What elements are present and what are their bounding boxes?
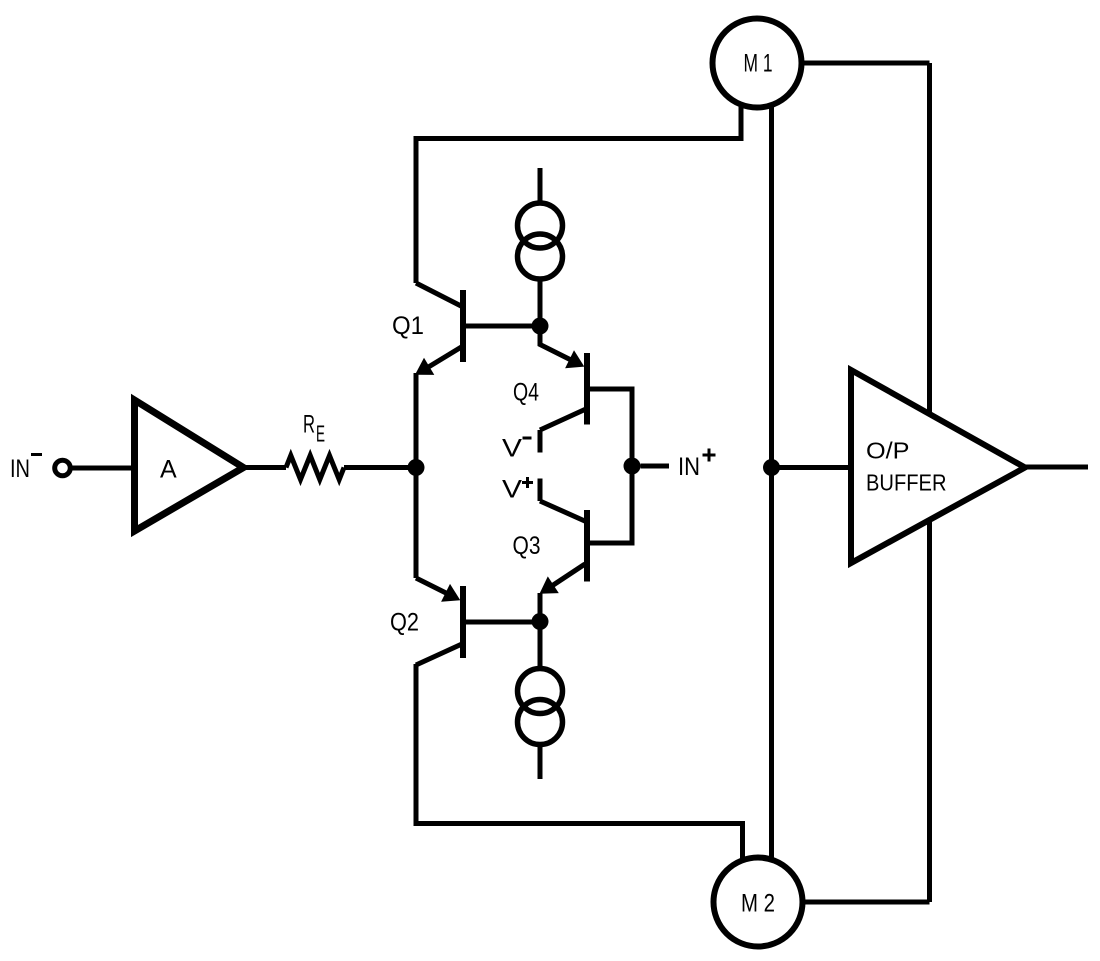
resistor RE (286, 456, 344, 480)
svg-text:Q1: Q1 (392, 312, 424, 340)
amplifier A (135, 400, 244, 531)
svg-text:A: A (160, 456, 177, 484)
svg-text:BUFFER: BUFFER (866, 470, 947, 496)
wire: top rail from Q1 collector to M1 (416, 103, 741, 283)
mirror M2 (714, 858, 803, 947)
node: summing node (408, 459, 425, 476)
svg-text:Q2: Q2 (390, 609, 419, 637)
svg-text:V: V (502, 435, 522, 463)
current source I1 (top) (518, 168, 563, 326)
svg-text:IN: IN (678, 453, 700, 481)
wire: right rail from M1 to M2 (behind buffer) (927, 63, 932, 902)
transistor Q4 (540, 326, 587, 453)
svg-text:M 2: M 2 (741, 890, 775, 918)
svg-text:E: E (316, 421, 325, 447)
svg-text:R: R (303, 411, 315, 439)
svg-text:M 1: M 1 (744, 50, 773, 78)
node: output rail junction (763, 459, 780, 476)
wire (344, 465, 416, 470)
wire: M1 right lead (799, 61, 930, 66)
wire (641, 464, 670, 469)
wire: output (1025, 465, 1088, 470)
mirror M1 (713, 19, 802, 108)
node: Q1 base / I1 (532, 318, 549, 335)
wire: bottom rail from Q2 collector to M2 (416, 664, 743, 861)
svg-text:Q3: Q3 (513, 532, 541, 560)
wire (244, 465, 287, 470)
node: Q2 base / I2 (532, 613, 549, 630)
svg-text:O/P: O/P (866, 438, 910, 464)
wire: long rail M1 bottom to M2 top (769, 104, 774, 860)
svg-text:IN: IN (10, 455, 30, 483)
node IN+ (624, 458, 641, 475)
svg-text:V: V (502, 475, 522, 503)
wire (71, 466, 136, 471)
wire: M2 right lead (800, 900, 930, 905)
transistor Q3 (540, 479, 588, 622)
input terminal (open circle) (55, 460, 71, 476)
current source I2 (bottom) (518, 622, 563, 780)
svg-text:Q4: Q4 (513, 379, 539, 407)
transistor Q2 (416, 578, 540, 665)
wire: main emitter line Q1-node-Q2 (414, 373, 419, 578)
wire: Q4/Q3 bases to IN+ node (587, 389, 632, 543)
wire (772, 465, 852, 470)
O/P buffer (851, 370, 1025, 563)
transistor Q1 (415, 283, 540, 375)
